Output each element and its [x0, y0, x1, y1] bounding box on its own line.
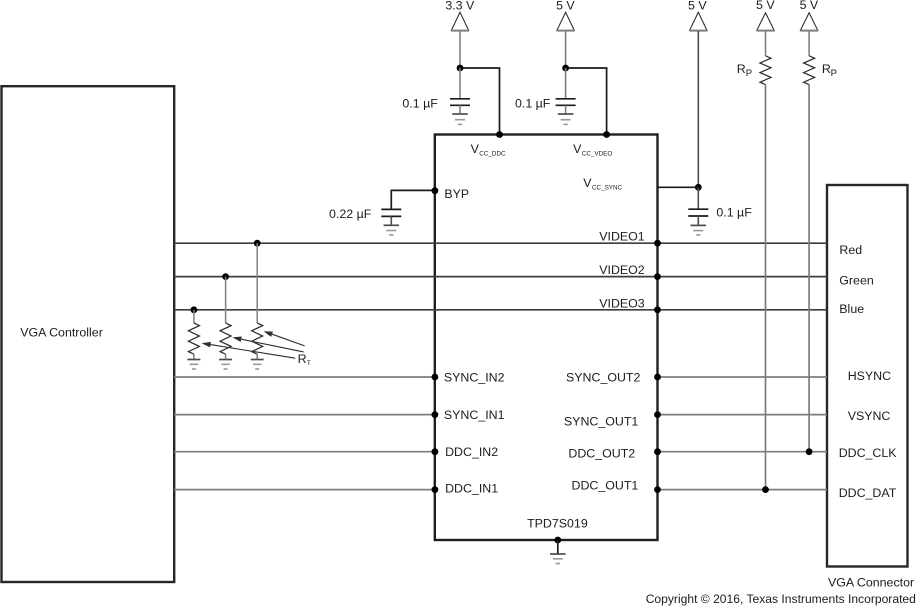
- node pin SYNC_IN2: [432, 374, 439, 381]
- ground IC: [550, 554, 566, 564]
- svg-text:DDC_OUT2: DDC_OUT2: [568, 447, 635, 461]
- node pin DDC_OUT1: [654, 486, 661, 493]
- svg-text:HSYNC: HSYNC: [848, 369, 891, 383]
- arrow to RT1: [202, 342, 296, 358]
- svg-text:DDC_OUT1: DDC_OUT1: [572, 479, 639, 493]
- svg-text:VIDEO2: VIDEO2: [599, 263, 645, 277]
- svg-text:R: R: [298, 352, 307, 366]
- wire 3.3V rail to VCC_DDC pin: [460, 68, 500, 135]
- svg-text:Green: Green: [839, 274, 874, 288]
- node junction RT3 on VIDEO1: [254, 240, 261, 247]
- node junction VCC_VDEO on IC top edge: [603, 131, 610, 138]
- wire DDC_IN1: [174, 489, 434, 491]
- ground below RT3: [251, 360, 264, 370]
- node pin VIDEO2: [654, 273, 661, 280]
- capacitor C1 0.1 uF: [450, 68, 470, 114]
- VGA Connector box: [827, 185, 908, 567]
- wire RP1 to DDC_DAT net: [765, 85, 767, 490]
- resistor RP1: [760, 56, 771, 85]
- svg-text:5 V: 5 V: [556, 0, 575, 12]
- node pin DDC_IN2: [432, 448, 439, 455]
- svg-text:SYNC_IN2: SYNC_IN2: [444, 370, 505, 384]
- svg-text:DDC_IN1: DDC_IN1: [445, 481, 498, 495]
- svg-text:VIDEO3: VIDEO3: [599, 296, 645, 310]
- wire DDC_IN2: [174, 451, 434, 453]
- ground below C2: [558, 114, 574, 124]
- svg-text:TPD7S019: TPD7S019: [527, 517, 588, 531]
- svg-text:CC_SYNC: CC_SYNC: [592, 185, 623, 192]
- label pin VCC_VDEO: [573, 142, 612, 158]
- node pin VIDEO1: [654, 240, 661, 247]
- ground below RT1: [187, 360, 200, 370]
- wire VIDEO1 to RT3: [256, 243, 258, 323]
- wire DDC_OUT2 to DDC_CLK: [658, 451, 827, 453]
- wire BYP pin to C4: [391, 190, 435, 209]
- node junction 3.3V rail: [457, 65, 464, 72]
- power 5V supply symbol (RP2 pull-up): [800, 0, 819, 56]
- wire SYNC_IN1: [174, 414, 434, 416]
- svg-text:DDC_CLK: DDC_CLK: [839, 446, 898, 460]
- svg-text:V: V: [573, 142, 582, 156]
- svg-text:5 V: 5 V: [756, 0, 775, 12]
- node junction RP1 DDC_DAT: [762, 486, 769, 493]
- wire RT2 to ground: [225, 354, 227, 359]
- ground below C3: [691, 225, 707, 235]
- wire RT3 to ground: [256, 354, 258, 359]
- arrow to RT2: [232, 337, 303, 352]
- svg-text:0.1 µF: 0.1 µF: [402, 96, 438, 110]
- svg-text:CC_DDC: CC_DDC: [479, 150, 506, 157]
- node pin SYNC_OUT2: [654, 374, 661, 381]
- svg-text:SYNC_IN1: SYNC_IN1: [444, 408, 505, 422]
- arrow to RT3: [264, 331, 305, 346]
- svg-text:0.22 µF: 0.22 µF: [329, 207, 372, 221]
- svg-text:0.1 µF: 0.1 µF: [515, 96, 551, 110]
- svg-text:5 V: 5 V: [800, 0, 819, 12]
- node junction RT1 on VIDEO3: [191, 306, 198, 313]
- svg-text:Copyright © 2016, Texas Instru: Copyright © 2016, Texas Instruments Inco…: [646, 592, 916, 606]
- power 3.3V supply symbol: [445, 0, 475, 68]
- svg-text:Blue: Blue: [839, 302, 864, 316]
- op IC box TPD7S019: [435, 135, 658, 541]
- label RP1: [737, 62, 752, 79]
- label pin VCC_DDC: [471, 142, 506, 158]
- wire SYNC_OUT1 to VSYNC: [658, 414, 827, 416]
- svg-text:BYP: BYP: [444, 187, 469, 201]
- VGA Controller box: [2, 86, 175, 582]
- wire VCC_SYNC pin to 5V rail: [658, 186, 698, 188]
- svg-text:3.3 V: 3.3 V: [445, 0, 475, 12]
- node junction VCC_SYNC rail: [695, 184, 702, 191]
- svg-text:SYNC_OUT1: SYNC_OUT1: [564, 414, 638, 428]
- svg-text:SYNC_OUT2: SYNC_OUT2: [566, 370, 640, 384]
- power 5V supply symbol (VCC_VDEO): [556, 0, 575, 68]
- svg-text:Red: Red: [839, 243, 862, 257]
- ground below C1: [452, 114, 468, 124]
- wire IC ground stem: [557, 540, 559, 554]
- wire RP2 to DDC_CLK net: [808, 85, 810, 452]
- svg-text:DDC_IN2: DDC_IN2: [445, 445, 498, 459]
- svg-text:5 V: 5 V: [688, 0, 707, 12]
- svg-text:V: V: [583, 176, 592, 190]
- node pin DDC_OUT2: [654, 448, 661, 455]
- wire VIDEO2 net: [174, 276, 827, 278]
- resistor RT3: [252, 323, 263, 354]
- wire RT1 to ground: [193, 354, 195, 359]
- wire SYNC_OUT2 to HSYNC: [658, 376, 827, 378]
- svg-text:DDC_DAT: DDC_DAT: [839, 486, 897, 500]
- node junction 5V rail: [562, 65, 569, 72]
- svg-text:P: P: [831, 68, 837, 79]
- svg-text:VGA Controller: VGA Controller: [20, 325, 103, 339]
- capacitor C4 0.22 uF: [381, 209, 401, 225]
- wire VIDEO2 to RT2: [225, 277, 227, 323]
- svg-text:VSYNC: VSYNC: [848, 409, 891, 423]
- ground below C4: [384, 225, 400, 235]
- wire VIDEO3 to RT1: [193, 310, 195, 323]
- label RP2: [822, 62, 837, 79]
- node pin SYNC_OUT1: [654, 411, 661, 418]
- wire VIDEO1 net: [174, 242, 827, 244]
- node junction VCC_DDC on IC top edge: [496, 131, 503, 138]
- resistor RT1: [188, 323, 199, 354]
- svg-text:V: V: [471, 142, 480, 156]
- node junction RP2 DDC_CLK: [806, 448, 813, 455]
- wire SYNC_IN2: [174, 376, 434, 378]
- power 5V supply symbol (VCC_SYNC): [688, 0, 707, 187]
- resistor RP2: [804, 56, 815, 85]
- svg-text:R: R: [822, 62, 831, 76]
- node pin DDC_IN1: [432, 486, 439, 493]
- capacitor C2 0.1 uF: [556, 68, 576, 114]
- node junction BYP pin: [432, 187, 439, 194]
- svg-text:0.1 µF: 0.1 µF: [716, 205, 752, 219]
- ground below RT2: [219, 360, 232, 370]
- node pin VIDEO3: [654, 306, 661, 313]
- svg-text:VGA Connector: VGA Connector: [828, 576, 914, 590]
- svg-text:R: R: [737, 62, 746, 76]
- label RT with arrows: [298, 352, 311, 367]
- wire VIDEO3 net: [174, 309, 827, 311]
- svg-text:CC_VDEO: CC_VDEO: [582, 150, 613, 157]
- node junction RT2 on VIDEO2: [222, 273, 229, 280]
- resistor RT2: [220, 323, 231, 354]
- wire DDC_OUT1 to DDC_DAT: [658, 489, 827, 491]
- node pin GND on IC bottom edge: [554, 537, 561, 544]
- wire 5V rail to VCC_VDEO pin: [566, 68, 607, 135]
- svg-text:P: P: [746, 68, 752, 79]
- power 5V supply symbol (RP1 pull-up): [756, 0, 775, 56]
- capacitor C3 0.1 uF: [688, 187, 708, 225]
- node pin SYNC_IN1: [432, 411, 439, 418]
- label pin VCC_SYNC: [583, 176, 622, 192]
- svg-text:T: T: [307, 360, 311, 367]
- svg-text:VIDEO1: VIDEO1: [599, 230, 645, 244]
